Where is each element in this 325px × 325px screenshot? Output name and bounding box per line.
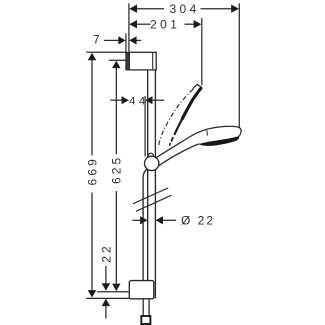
arrow 625 bottom (112, 284, 120, 292)
hose nut dark top band (141, 316, 151, 319)
rail tube left edge (147, 70, 149, 281)
arrow 7 left (points right) (118, 36, 125, 44)
hose nut body (141, 316, 150, 324)
dim line 7 (104, 39, 119, 41)
wire extension line 7-left (125, 34, 127, 52)
arrow 304 right (231, 5, 239, 13)
arrow 304 left (129, 5, 137, 13)
break mark diagonal 2 (136, 195, 172, 211)
arrow 625 top (112, 61, 120, 69)
break mark diagonal 1 (133, 188, 168, 204)
arrow 22 top (points down) (102, 283, 110, 291)
wire extension line left of dims (wall face) (128, 3, 130, 52)
svg-text:Ø 22: Ø 22 (181, 213, 215, 227)
arrow 44 right (points left) (145, 96, 152, 104)
wire extension line 304 (238, 3, 240, 128)
dim line 44 (110, 99, 121, 101)
hose below bracket left (142, 299, 144, 316)
wire extension line 201 (201, 18, 203, 85)
arrow 201 left (129, 20, 137, 28)
arrow 7 right (points left) (129, 36, 136, 44)
hose left edge (143, 169, 147, 281)
wall bracket top: dark plate (126, 52, 129, 70)
wire extension top 625 (109, 59, 126, 61)
slider knob (145, 156, 159, 170)
hand shower dark spray face band (199, 136, 239, 146)
svg-text:625: 625 (110, 155, 124, 184)
svg-text:4: 4 (129, 95, 135, 107)
wire extension top 669 (86, 51, 126, 53)
dim line 304 (137, 8, 165, 10)
arrow 201 right (194, 20, 202, 28)
arrow 44 left (points right) (122, 96, 129, 104)
arrow dia22 left (points right) (140, 216, 147, 224)
dim line 625 vertical (115, 68, 117, 155)
dim line 22 vertical (105, 266, 107, 284)
bottom bracket (129, 281, 154, 299)
wire extension bottom 669 (86, 297, 129, 299)
svg-text:7: 7 (93, 32, 100, 46)
hand shower handle top outline (156, 126, 241, 157)
dim line diameter 22 (132, 219, 140, 221)
svg-text:304: 304 (169, 2, 199, 16)
arrow 669 bottom (88, 290, 96, 298)
wire extension line 44-right (to slider) (144, 96, 146, 157)
phantom head dashed left outline (159, 89, 194, 147)
svg-text:201: 201 (150, 17, 180, 31)
wall bracket top: inner edge line (152, 53, 154, 69)
arrowheads (88, 5, 239, 307)
slider knob nub (148, 153, 153, 158)
dim line 669 vertical (91, 60, 93, 156)
arrow 669 top (88, 53, 96, 61)
hand shower handle bottom outline (159, 144, 200, 166)
svg-text:669: 669 (85, 156, 99, 185)
arrow 22 bottom (points up) (102, 299, 110, 307)
wire extension bottom 625/22 (97, 291, 128, 293)
dim line 201 (137, 23, 151, 25)
svg-text:4: 4 (139, 95, 145, 107)
phantom head dark rim band (182, 88, 201, 119)
svg-text:22: 22 (99, 243, 113, 263)
wall bracket top: body (129, 52, 156, 70)
rail tube right edge (154, 70, 156, 299)
hand shower joint tick (206, 130, 209, 135)
phantom head tip cap (193, 84, 202, 88)
hose below bracket right (148, 299, 150, 316)
arrow dia22 right (points left) (156, 216, 163, 224)
